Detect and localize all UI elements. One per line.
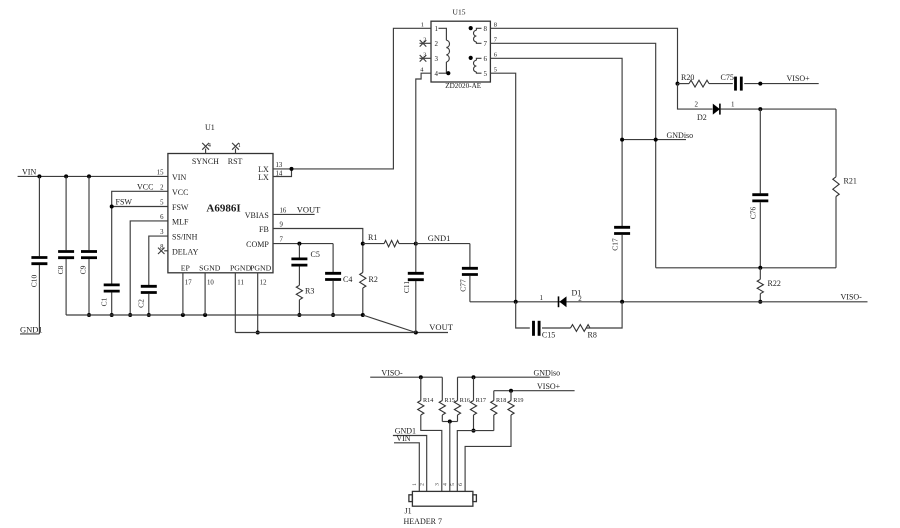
svg-text:4: 4 — [420, 66, 424, 73]
svg-text:R20: R20 — [681, 73, 694, 82]
wire SGND pin 10 — [204, 273, 206, 315]
resistor R3 — [296, 285, 314, 317]
wire R15/R16 common foot — [442, 420, 457, 492]
svg-text:VISO+: VISO+ — [537, 382, 561, 391]
svg-text:R1: R1 — [368, 233, 377, 242]
wire LX net to transformer — [273, 28, 431, 176]
wire VCC net — [112, 183, 168, 284]
svg-text:11: 11 — [237, 280, 244, 287]
no-connect X on RST pin 1 — [232, 143, 241, 154]
svg-text:2: 2 — [695, 101, 699, 109]
ground GND1 (left) — [20, 324, 43, 334]
wire diagonal from R2 foot to VOUT — [363, 315, 416, 333]
svg-text:8: 8 — [160, 244, 164, 251]
svg-text:R21: R21 — [844, 177, 857, 186]
capacitor C1 — [100, 285, 120, 317]
svg-text:17: 17 — [185, 280, 192, 287]
svg-text:6: 6 — [484, 55, 488, 63]
svg-text:7: 7 — [484, 40, 488, 48]
svg-text:R19: R19 — [513, 397, 523, 404]
svg-text:VIN: VIN — [172, 173, 186, 182]
svg-text:2: 2 — [578, 295, 582, 303]
svg-text:D2: D2 — [697, 113, 707, 122]
svg-text:R17: R17 — [476, 397, 486, 404]
svg-text:1: 1 — [412, 483, 418, 486]
transformer primary winding pins 1-4 — [439, 28, 451, 75]
svg-text:C8: C8 — [56, 265, 65, 274]
capacitor C75 — [721, 73, 819, 91]
wire GNDiso lower run — [656, 266, 836, 270]
svg-text:VIN: VIN — [22, 168, 36, 177]
resistor R18 — [491, 391, 507, 431]
node VIN (input rail) — [18, 168, 168, 179]
wire PGND pin 12 — [256, 273, 260, 335]
resistor R20 — [676, 73, 733, 87]
svg-text:C10: C10 — [29, 275, 38, 288]
node GNDiso (upper) — [620, 131, 693, 142]
wire U15 pin 4 to C11 column — [416, 73, 431, 243]
svg-text:GNDiso: GNDiso — [534, 368, 561, 377]
svg-text:2: 2 — [423, 37, 426, 43]
node VOUT (bottom line) — [235, 322, 453, 334]
wire FSW net — [110, 197, 168, 208]
svg-text:VISO-: VISO- — [841, 293, 863, 302]
node VISO- (bottom rail) — [370, 369, 442, 380]
svg-text:8: 8 — [494, 21, 497, 28]
pin numbers U1 right/bottom — [185, 162, 287, 287]
svg-text:FSW: FSW — [172, 203, 189, 212]
capacitor C15 (series branch) — [516, 302, 571, 340]
svg-text:C11: C11 — [402, 281, 411, 293]
node GND1 (mid) wire to C77 — [416, 233, 470, 267]
wire PGND pin 11 — [234, 273, 236, 333]
capacitor C11 — [402, 244, 424, 333]
svg-text:DELAY: DELAY — [172, 247, 199, 256]
svg-text:VISO-: VISO- — [381, 369, 403, 378]
node VIN (header) — [394, 434, 419, 491]
svg-text:5: 5 — [494, 66, 497, 73]
transformer secondary winding pins 8-7 — [469, 26, 482, 43]
svg-text:2: 2 — [160, 184, 164, 191]
connector J1 HEADER 7 — [404, 491, 477, 526]
svg-text:R15: R15 — [445, 397, 455, 404]
resistor R21 — [833, 109, 857, 268]
svg-text:1: 1 — [421, 21, 424, 28]
svg-text:13: 13 — [276, 162, 283, 169]
wire U15 pin 6 — [490, 58, 622, 226]
svg-text:SS/INH: SS/INH — [172, 233, 198, 242]
svg-text:R8: R8 — [588, 331, 597, 340]
svg-text:3: 3 — [160, 229, 164, 236]
svg-text:PGND: PGND — [250, 263, 272, 272]
svg-text:C75: C75 — [721, 73, 734, 82]
svg-text:1: 1 — [540, 294, 544, 302]
svg-text:7: 7 — [494, 36, 498, 43]
svg-text:1: 1 — [731, 101, 735, 109]
capacitor C8 — [56, 176, 74, 315]
svg-text:12: 12 — [260, 280, 267, 287]
resistor R22 — [757, 268, 781, 304]
svg-text:C9: C9 — [78, 265, 87, 274]
no-connect X on SYNCH pin 4 — [202, 143, 211, 154]
wire U15 pin 8 — [490, 28, 677, 83]
svg-text:VCC: VCC — [137, 183, 153, 192]
resistor R19 — [465, 391, 523, 492]
svg-text:C17: C17 — [610, 238, 619, 251]
svg-text:VOUT: VOUT — [429, 322, 453, 332]
svg-text:MLF: MLF — [172, 217, 189, 226]
resistor R15 — [439, 377, 455, 421]
diode D1 — [540, 289, 583, 308]
node VISO+ (bottom rail) — [494, 382, 575, 393]
svg-text:GND1: GND1 — [428, 233, 451, 243]
wire R17/R18 common foot — [457, 431, 494, 492]
svg-text:3: 3 — [423, 52, 426, 58]
wire SS/INH net — [149, 236, 168, 285]
transformer U15 ZD2020-AE — [431, 7, 490, 90]
svg-text:C77: C77 — [459, 279, 468, 292]
pin numbers U15 right — [494, 21, 498, 73]
svg-text:C2: C2 — [137, 299, 146, 308]
svg-text:2: 2 — [435, 40, 439, 48]
wire U15 pin 7 — [490, 43, 655, 267]
svg-text:6: 6 — [160, 214, 164, 221]
ground rail GND1 (bottom of IC) — [66, 313, 365, 317]
svg-text:RST: RST — [228, 157, 243, 166]
svg-text:R16: R16 — [460, 397, 470, 404]
op-amp U1 regulator A6986I — [168, 123, 273, 273]
svg-text:1: 1 — [435, 25, 439, 33]
svg-text:VIN: VIN — [396, 434, 410, 443]
capacitor C5 — [291, 244, 319, 286]
node GND1 (header) — [393, 427, 427, 492]
svg-text:A6986I: A6986I — [206, 203, 240, 215]
svg-text:10: 10 — [207, 280, 214, 287]
capacitor C76 — [749, 109, 769, 268]
capacitor C9 — [78, 176, 97, 317]
resistor R16 — [454, 377, 470, 421]
svg-text:HEADER 7: HEADER 7 — [404, 517, 442, 526]
node VISO- / D1 line — [470, 293, 868, 304]
svg-text:9: 9 — [280, 222, 284, 229]
transformer secondary winding pins 6-5 — [469, 56, 482, 73]
wire COMP net — [273, 242, 333, 246]
svg-text:U1: U1 — [205, 123, 215, 132]
svg-text:U15: U15 — [453, 7, 466, 16]
svg-text:1: 1 — [238, 143, 241, 149]
wire U15 pin 5 — [490, 73, 515, 302]
svg-text:GND1: GND1 — [20, 324, 43, 334]
svg-text:C76: C76 — [749, 207, 758, 220]
svg-text:FSW: FSW — [116, 197, 133, 206]
svg-text:5: 5 — [484, 70, 488, 78]
svg-text:EP: EP — [181, 263, 191, 272]
resistor R2 — [360, 244, 378, 315]
svg-text:SGND: SGND — [199, 263, 221, 272]
resistor R8 — [571, 302, 623, 340]
pin numbers U1 left — [157, 169, 164, 250]
svg-text:VOUT: VOUT — [297, 204, 321, 214]
wire EP pin 17 — [182, 273, 184, 315]
no-connect X on U15 pin 2 — [420, 37, 432, 46]
svg-text:LX: LX — [258, 173, 269, 182]
wire MLF net — [128, 221, 168, 317]
svg-text:C15: C15 — [542, 331, 555, 340]
wire VBIAS / VOUT label — [273, 204, 321, 214]
svg-text:4: 4 — [435, 70, 439, 78]
svg-text:2: 2 — [420, 483, 426, 486]
node GNDiso (bottom rail) — [458, 368, 561, 379]
capacitor C10 — [29, 176, 47, 334]
resistor R17 — [470, 377, 486, 432]
svg-text:5: 5 — [160, 200, 164, 207]
capacitor C77 — [459, 268, 478, 302]
resistor R1 — [361, 233, 418, 247]
svg-text:8: 8 — [484, 25, 488, 33]
svg-text:ZD2020-AE: ZD2020-AE — [445, 82, 482, 90]
svg-text:4: 4 — [443, 483, 449, 486]
capacitor C2 — [137, 286, 157, 317]
svg-text:C1: C1 — [100, 297, 109, 306]
svg-text:R18: R18 — [496, 397, 506, 404]
svg-text:R14: R14 — [423, 397, 433, 404]
svg-text:COMP: COMP — [246, 240, 269, 249]
svg-text:J1: J1 — [405, 507, 412, 516]
svg-text:VCC: VCC — [172, 188, 188, 197]
svg-text:VBIAS: VBIAS — [245, 211, 269, 220]
svg-text:VISO+: VISO+ — [787, 74, 811, 83]
diode D2 — [678, 84, 837, 122]
svg-text:FB: FB — [259, 225, 269, 234]
svg-text:7: 7 — [280, 237, 284, 244]
capacitor C4 — [325, 244, 352, 317]
svg-text:5: 5 — [450, 483, 456, 486]
wire FB net — [273, 229, 363, 244]
resistor R14 — [418, 377, 442, 491]
svg-text:PGND: PGND — [230, 263, 252, 272]
svg-text:15: 15 — [157, 169, 164, 176]
svg-text:4: 4 — [208, 143, 211, 149]
svg-text:R3: R3 — [305, 287, 314, 296]
svg-text:3: 3 — [435, 55, 439, 63]
svg-text:R22: R22 — [768, 279, 781, 288]
header J1 pin numbers — [412, 483, 464, 486]
no-connect X on U15 pin 3 — [420, 52, 432, 61]
capacitor C17 — [610, 227, 630, 301]
svg-text:SYNCH: SYNCH — [192, 157, 219, 166]
svg-text:3: 3 — [435, 483, 441, 486]
svg-text:R2: R2 — [369, 275, 378, 284]
svg-text:C4: C4 — [343, 275, 352, 284]
svg-text:16: 16 — [280, 207, 287, 214]
svg-text:6: 6 — [458, 483, 464, 486]
svg-text:6: 6 — [494, 51, 498, 58]
svg-text:GNDiso: GNDiso — [667, 131, 694, 140]
svg-text:C5: C5 — [311, 250, 320, 259]
no-connect X on DELAY pin 8 — [158, 248, 168, 254]
